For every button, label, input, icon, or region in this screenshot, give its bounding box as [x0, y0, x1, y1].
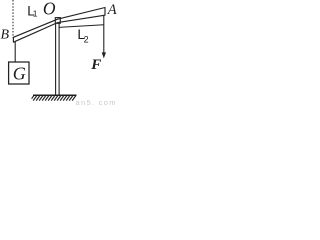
- beam (lever) outline B to A: [13, 8, 105, 43]
- svg-text:O: O: [43, 0, 56, 19]
- weight box G: [9, 62, 29, 84]
- force F action line with arrow: [103, 15, 105, 53]
- svg-text:B: B: [1, 28, 10, 43]
- node B line of action (dotted vertical): [12, 0, 14, 38]
- lever arm L2 line from pivot to F action line: [59, 25, 104, 28]
- svg-text:A: A: [107, 2, 117, 18]
- support column right line: [58, 23, 60, 95]
- ground hatching: [32, 95, 76, 100]
- support column left line: [55, 23, 57, 95]
- svg-text:2: 2: [84, 34, 89, 44]
- string from B to weight: [14, 42, 16, 63]
- svg-text:G: G: [13, 64, 26, 84]
- arrowhead of F: [102, 52, 106, 58]
- ground line: [33, 94, 77, 96]
- fulcrum pivot square at O: [55, 18, 60, 24]
- svg-text:F: F: [90, 57, 101, 73]
- svg-text:1: 1: [33, 9, 38, 19]
- svg-text:an5. com: an5. com: [76, 98, 117, 107]
